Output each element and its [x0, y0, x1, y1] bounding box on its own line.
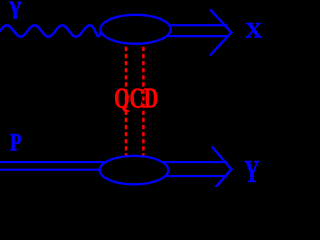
proton beam line bottom: [0, 169, 101, 171]
lower blob: [100, 156, 169, 184]
proton beam line top: [0, 161, 106, 163]
svg-text:γ: γ: [8, 0, 21, 19]
arrow Y shaft top line: [163, 161, 228, 163]
pomeron dashed line left: [125, 46, 128, 157]
arrow Y shaft bottom line: [165, 175, 228, 177]
arrow X head: [210, 9, 231, 55]
svg-text:X: X: [245, 18, 263, 43]
photon wavy line (gamma): [0, 25, 101, 36]
svg-text:P: P: [10, 128, 22, 156]
arrow Y head: [212, 147, 232, 192]
pomeron dashed line right: [142, 46, 145, 157]
arrow X shaft top line: [169, 24, 228, 26]
upper blob: [101, 15, 171, 44]
svg-text:Y: Y: [244, 154, 259, 187]
arrow X shaft bottom line: [167, 35, 228, 37]
svg-text:QCD: QCD: [114, 83, 158, 114]
